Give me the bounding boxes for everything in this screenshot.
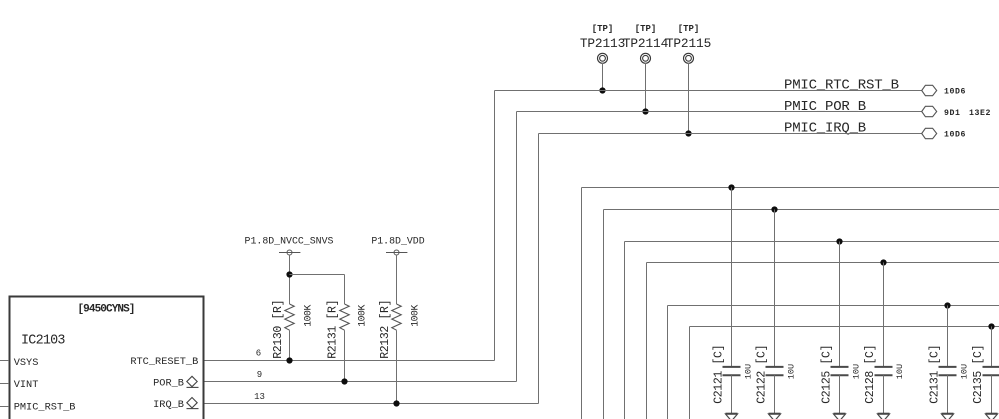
- svg-text:10U: 10U: [851, 364, 861, 379]
- wire pin 13 to riser: [205, 403, 539, 405]
- ground C2125: [834, 414, 846, 419]
- node PMIC_RTC_RST_B label: [784, 78, 899, 94]
- wire C2135 top: [991, 327, 993, 367]
- capacitor C2135: [972, 345, 999, 404]
- ground C2128: [878, 414, 890, 419]
- resistor R2131: [327, 300, 368, 359]
- svg-text:VINT: VINT: [14, 379, 39, 391]
- wire rail 3 (to C2125): [625, 242, 999, 419]
- pin VINT: [0, 379, 38, 391]
- sheet reference 9D1 13E2: [944, 109, 991, 118]
- junction TP2114: [642, 108, 648, 114]
- junction NVCC_SNVS branch: [286, 271, 292, 277]
- wire net PMIC_IRQ_B vertical riser: [538, 134, 540, 404]
- wire C2131 top: [947, 306, 949, 367]
- wire C2135 bottom: [991, 375, 993, 414]
- pin RTC_RESET_B pin 6: [130, 349, 261, 368]
- svg-text:RTC_RESET_B: RTC_RESET_B: [130, 356, 198, 368]
- wire net PMIC_RTC_RST_B horizontal: [495, 90, 922, 92]
- test point TP2113: [580, 24, 625, 63]
- power symbol P1.8D_VDD: [371, 235, 424, 255]
- wire rail 4 (to C2128): [647, 263, 999, 419]
- svg-text:TP2115: TP2115: [666, 36, 711, 51]
- IC U IC2103 body: [10, 297, 204, 419]
- capacitor C2121: [712, 345, 753, 404]
- ground C2131: [942, 414, 954, 419]
- svg-text:P1.8D_VDD: P1.8D_VDD: [371, 235, 424, 246]
- wire C2121 top: [731, 188, 733, 367]
- svg-text:C2128 [C]: C2128 [C]: [864, 345, 877, 404]
- wire C2125 bottom: [839, 375, 841, 414]
- svg-text:R2130 [R]: R2130 [R]: [272, 300, 285, 359]
- junction C2135 tap: [988, 323, 994, 329]
- wire R2131 bottom: [344, 330, 346, 381]
- wire rail 2 (to C2122): [604, 210, 999, 419]
- off-page connector PMIC_POR_B: [922, 106, 937, 116]
- svg-text:PMIC_IRQ_B: PMIC_IRQ_B: [784, 121, 866, 137]
- svg-text:6: 6: [256, 349, 261, 359]
- wire C2128 bottom: [883, 375, 885, 414]
- wire C2122 bottom: [774, 375, 776, 414]
- wire net PMIC_POR_B vertical riser: [516, 112, 518, 382]
- wire C2131 bottom: [947, 375, 949, 414]
- wire NVCC_SNVS down to junction: [289, 255, 291, 304]
- svg-text:[TP]: [TP]: [635, 24, 657, 34]
- wire pin 6 to riser: [205, 360, 495, 362]
- wire net PMIC_IRQ_B horizontal: [539, 133, 922, 135]
- ground C2135: [986, 414, 998, 419]
- svg-text:P1.8D_NVCC_SNVS: P1.8D_NVCC_SNVS: [245, 235, 334, 246]
- svg-text:C2135 [C]: C2135 [C]: [972, 345, 985, 404]
- svg-text:100K: 100K: [410, 305, 421, 327]
- junction C2121 tap: [728, 184, 734, 190]
- capacitor C2122: [755, 345, 796, 404]
- pin VSYS: [0, 357, 38, 369]
- wire C2121 bottom: [731, 375, 733, 414]
- resistor R2130: [272, 300, 313, 359]
- sheet reference 10D6 (RTC): [944, 88, 966, 97]
- pin IRQ_B pin 13: [153, 392, 265, 411]
- junction C2131 tap: [944, 302, 950, 308]
- resistor R2132: [379, 300, 420, 359]
- junction C2122 tap: [771, 206, 777, 212]
- svg-text:10D6: 10D6: [944, 88, 966, 97]
- wire pin 9 to riser: [205, 381, 517, 383]
- wire TP2114 to PMIC_POR_B: [645, 63, 647, 112]
- ground C2122: [769, 414, 781, 419]
- junction TP2115: [685, 130, 691, 136]
- svg-text:C2125 [C]: C2125 [C]: [820, 345, 833, 404]
- wire P1.8D_VDD down to R2132: [396, 255, 398, 304]
- svg-text:[TP]: [TP]: [592, 24, 614, 34]
- svg-text:100K: 100K: [357, 305, 368, 327]
- svg-text:C2121 [C]: C2121 [C]: [712, 345, 725, 404]
- svg-text:C2122 [C]: C2122 [C]: [755, 345, 768, 404]
- junction TP2113: [599, 87, 605, 93]
- svg-text:10U: 10U: [786, 364, 796, 379]
- svg-text:10U: 10U: [743, 364, 753, 379]
- pin POR_B pin 9: [153, 370, 262, 390]
- pin PMIC_RST_B: [0, 401, 75, 413]
- ground C2121: [726, 414, 738, 419]
- power symbol P1.8D_NVCC_SNVS: [245, 235, 334, 255]
- wire TP2113 to PMIC_RTC_RST_B: [602, 63, 604, 91]
- wire R2130 bottom: [289, 330, 291, 360]
- svg-text:10U: 10U: [960, 364, 970, 379]
- junction C2125 tap: [836, 238, 842, 244]
- svg-text:TP2114: TP2114: [623, 36, 669, 51]
- off-page connector PMIC_IRQ_B: [922, 128, 937, 138]
- wire rail 6 (to C2135): [690, 327, 999, 419]
- svg-text:POR_B: POR_B: [153, 378, 184, 390]
- svg-text:[9450CYNS]: [9450CYNS]: [77, 304, 134, 316]
- svg-text:PMIC_RST_B: PMIC_RST_B: [14, 401, 76, 413]
- svg-text:10D6: 10D6: [944, 130, 966, 139]
- wire TP2115 to PMIC_IRQ_B: [688, 63, 690, 134]
- svg-text:TP2113: TP2113: [580, 36, 625, 51]
- svg-text:PMIC_RTC_RST_B: PMIC_RTC_RST_B: [784, 78, 899, 94]
- capacitor C2128: [864, 345, 905, 404]
- svg-text:R2132 [R]: R2132 [R]: [379, 300, 392, 359]
- wire R2132 bottom: [396, 330, 398, 403]
- node PMIC_POR_B label: [784, 99, 866, 115]
- wire net PMIC_RTC_RST_B vertical riser: [494, 91, 496, 361]
- wire C2125 top: [839, 242, 841, 367]
- wire C2128 top: [883, 263, 885, 367]
- wire branch to R2131 top: [290, 275, 345, 305]
- junction R2131 on pin9 wire: [341, 378, 347, 384]
- svg-text:R2131 [R]: R2131 [R]: [327, 300, 340, 359]
- capacitor C2125: [820, 345, 861, 404]
- off-page connector PMIC_RTC_RST_B: [922, 85, 937, 95]
- svg-text:9D1: 9D1: [944, 109, 961, 118]
- test point TP2115: [666, 24, 711, 63]
- svg-text:9: 9: [257, 370, 262, 380]
- junction R2132 on pin13 wire: [393, 400, 399, 406]
- svg-text:10U: 10U: [895, 364, 905, 379]
- test point TP2114: [623, 24, 669, 63]
- svg-text:13: 13: [254, 392, 265, 402]
- svg-text:C2131 [C]: C2131 [C]: [929, 345, 942, 404]
- svg-text:100K: 100K: [302, 305, 313, 327]
- svg-text:IC2103: IC2103: [21, 334, 65, 349]
- wire rail 5 (to C2131): [668, 306, 999, 419]
- wire rail 1 (to C2121): [582, 188, 999, 419]
- wire C2122 top: [774, 210, 776, 367]
- junction R2130 on pin6 wire: [286, 357, 292, 363]
- capacitor C2131: [929, 345, 970, 404]
- svg-text:[TP]: [TP]: [678, 24, 700, 34]
- sheet reference 10D6 (IRQ): [944, 130, 966, 139]
- wire net PMIC_POR_B horizontal: [517, 111, 922, 113]
- svg-text:PMIC_POR_B: PMIC_POR_B: [784, 99, 866, 115]
- svg-text:IRQ_B: IRQ_B: [153, 399, 184, 411]
- svg-text:VSYS: VSYS: [14, 357, 39, 369]
- junction C2128 tap: [880, 259, 886, 265]
- node PMIC_IRQ_B label: [784, 121, 866, 137]
- svg-text:13E2: 13E2: [969, 109, 991, 118]
